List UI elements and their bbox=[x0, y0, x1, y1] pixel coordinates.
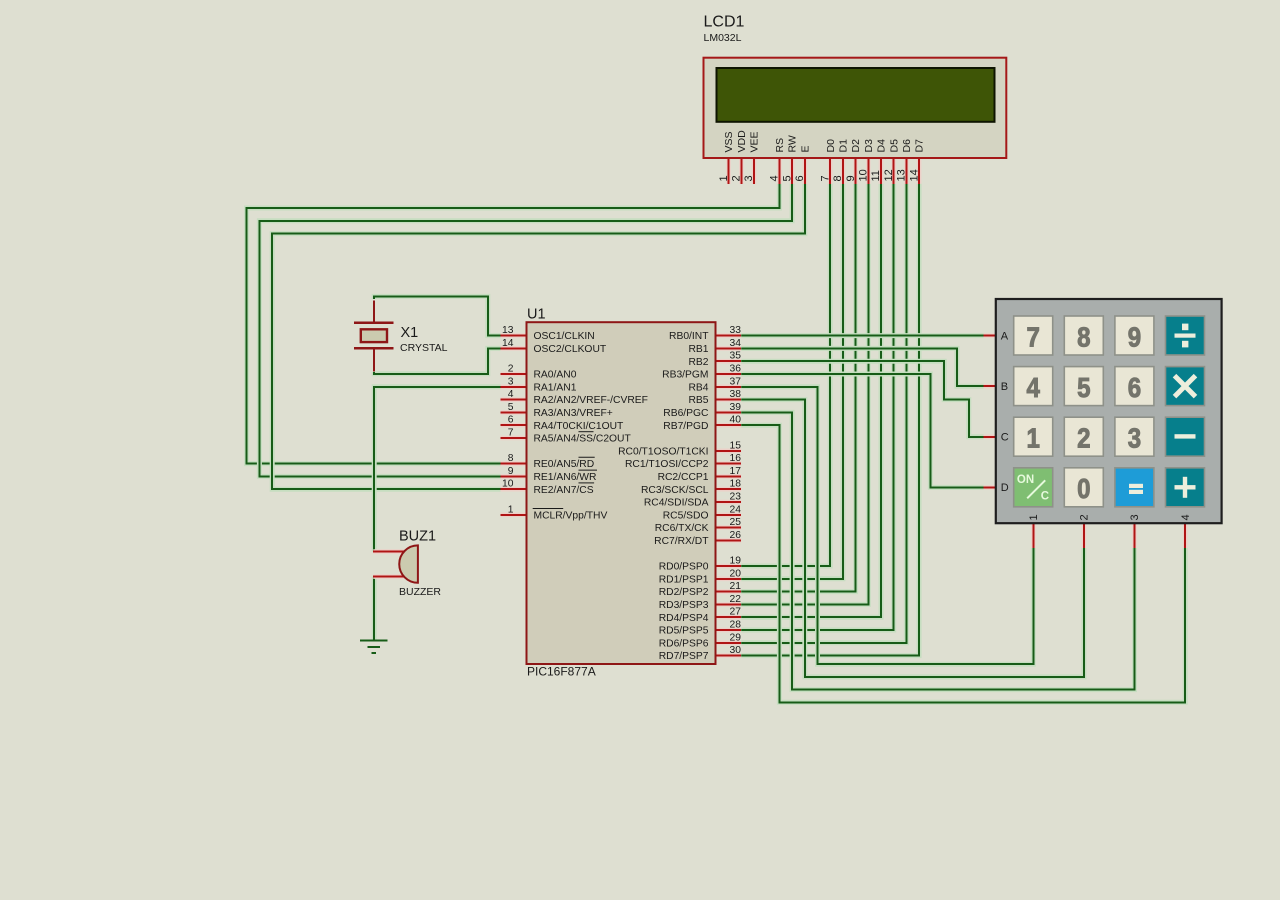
svg-text:BUZ1: BUZ1 bbox=[399, 528, 436, 544]
U1 pin 17 (RC2/CCP1) bbox=[716, 474, 742, 479]
crystal X1 body bbox=[361, 329, 387, 342]
svg-text:RE2/AN7/CS: RE2/AN7/CS bbox=[534, 485, 594, 496]
wire LCD D0 to U1 RD0 (net D0) bbox=[741, 184, 830, 566]
U1 pin 39 (RB6/PGC) bbox=[716, 410, 742, 415]
keypad key divide bbox=[1166, 316, 1205, 355]
svg-text:1: 1 bbox=[1028, 514, 1040, 520]
LCD1 pin 4 (RS) bbox=[777, 158, 782, 184]
svg-text:D0: D0 bbox=[825, 139, 837, 153]
wire LCD D3 to U1 RD3 (net D3) bbox=[741, 184, 868, 605]
svg-text:RC7/RX/DT: RC7/RX/DT bbox=[654, 536, 709, 547]
svg-text:16: 16 bbox=[730, 453, 742, 464]
U1 pin 4 (RA2/AN2/VREF-/CVREF) bbox=[501, 397, 527, 402]
LCD1 pin 11 (D4) bbox=[879, 158, 884, 184]
svg-text:15: 15 bbox=[730, 440, 742, 451]
U1 pin 25 (RC6/TX/CK) bbox=[716, 525, 742, 530]
keypad panel bbox=[996, 299, 1222, 523]
wire U1 RB6 to keypad column 3 bbox=[741, 412, 1134, 689]
keypad key 4 bbox=[1014, 367, 1053, 406]
LCD1 pin 1 (VSS) bbox=[726, 158, 731, 184]
svg-text:RD2/PSP2: RD2/PSP2 bbox=[659, 587, 709, 598]
svg-text:D2: D2 bbox=[850, 139, 862, 153]
wire X1 top to U1 OSC1 (net XT1) bbox=[374, 296, 500, 335]
overbar on SS of RA5 label bbox=[579, 431, 594, 433]
svg-text:D1: D1 bbox=[838, 139, 850, 153]
U1 pin 5 (RA3/AN3/VREF+) bbox=[501, 410, 527, 415]
svg-text:14: 14 bbox=[502, 338, 514, 349]
wire LCD D5 to U1 RD5 (net D5) bbox=[741, 184, 894, 630]
svg-text:RC6/TX/CK: RC6/TX/CK bbox=[655, 523, 709, 534]
svg-text:RC3/SCK/SCL: RC3/SCK/SCL bbox=[641, 485, 709, 496]
keypad key 1 bbox=[1014, 417, 1053, 456]
svg-text:RC0/T1OSO/T1CKI: RC0/T1OSO/T1CKI bbox=[618, 446, 708, 457]
svg-text:D: D bbox=[1001, 482, 1009, 494]
svg-text:RS: RS bbox=[774, 138, 786, 153]
svg-text:27: 27 bbox=[730, 607, 742, 618]
U1 pin 6 (RA4/T0CKI/C1OUT) bbox=[501, 423, 527, 428]
svg-text:4: 4 bbox=[1027, 372, 1041, 403]
svg-text:2: 2 bbox=[508, 364, 514, 375]
svg-text:3: 3 bbox=[1129, 514, 1141, 520]
svg-text:D4: D4 bbox=[876, 139, 888, 153]
U1 pin 24 (RC5/SDO) bbox=[716, 512, 742, 517]
X1 pin 1 stub bbox=[373, 301, 375, 323]
svg-text:RB2: RB2 bbox=[688, 357, 708, 368]
wire LCD D6 to U1 RD6 (net D6) bbox=[741, 184, 906, 643]
U1 pin 33 (RB0/INT) bbox=[716, 333, 742, 338]
svg-text:29: 29 bbox=[730, 632, 742, 643]
svg-text:B: B bbox=[1001, 381, 1008, 393]
svg-text:LM032L: LM032L bbox=[704, 32, 742, 44]
svg-text:7: 7 bbox=[819, 175, 831, 181]
wire U1 RB5 to keypad column 2 bbox=[741, 400, 1084, 677]
svg-text:RB6/PGC: RB6/PGC bbox=[663, 408, 709, 419]
svg-text:34: 34 bbox=[730, 338, 742, 349]
U1 pin 37 (RB4) bbox=[716, 384, 742, 389]
U1 pin 20 (RD1/PSP1) bbox=[716, 576, 742, 581]
keypad key 5 bbox=[1064, 367, 1103, 406]
svg-text:RC1/T1OSI/CCP2: RC1/T1OSI/CCP2 bbox=[625, 459, 709, 470]
keypad pin row A bbox=[984, 333, 996, 338]
svg-text:BUZZER: BUZZER bbox=[399, 586, 441, 598]
svg-text:RA0/AN0: RA0/AN0 bbox=[534, 370, 577, 381]
svg-text:C: C bbox=[1041, 490, 1049, 502]
U1 pin 15 (RC0/T1OSO/T1CKI) bbox=[716, 448, 742, 453]
svg-text:10: 10 bbox=[502, 479, 514, 490]
U1 pin 16 (RC1/T1OSI/CCP2) bbox=[716, 461, 742, 466]
svg-text:RD5/PSP5: RD5/PSP5 bbox=[659, 626, 709, 637]
svg-text:39: 39 bbox=[730, 402, 742, 413]
wire U1 RB4 to keypad column 1 bbox=[741, 387, 1033, 664]
svg-text:LCD1: LCD1 bbox=[704, 13, 745, 30]
LCD display LCD1 LM032L bbox=[704, 58, 1007, 158]
svg-text:RC5/SDO: RC5/SDO bbox=[663, 510, 709, 521]
U1 pin 7 (RA5/AN4/SS/C2OUT) bbox=[501, 436, 527, 441]
svg-text:35: 35 bbox=[730, 351, 742, 362]
wire U1 RB2 to keypad row C bbox=[741, 361, 983, 437]
keypad pin column 1 bbox=[1031, 523, 1036, 548]
svg-text:RB0/INT: RB0/INT bbox=[669, 331, 709, 342]
overbar on RD of RE0 label bbox=[579, 456, 595, 458]
svg-text:5: 5 bbox=[781, 175, 793, 181]
U1 pin 38 (RB5) bbox=[716, 397, 742, 402]
keypad pin column 2 bbox=[1082, 523, 1087, 548]
U1 pin 19 (RD0/PSP0) bbox=[716, 564, 742, 569]
svg-text:3: 3 bbox=[508, 376, 514, 387]
U1 pin 27 (RD4/PSP4) bbox=[716, 615, 742, 620]
svg-text:19: 19 bbox=[730, 556, 742, 567]
svg-text:30: 30 bbox=[730, 645, 742, 656]
svg-text:12: 12 bbox=[883, 169, 895, 181]
svg-text:37: 37 bbox=[730, 376, 742, 387]
svg-text:24: 24 bbox=[730, 504, 742, 515]
svg-text:20: 20 bbox=[730, 568, 742, 579]
svg-text:RD0/PSP0: RD0/PSP0 bbox=[659, 562, 709, 573]
keypad key 8 bbox=[1064, 316, 1103, 355]
U1 pin 23 (RC4/SDI/SDA) bbox=[716, 500, 742, 505]
LCD1 screen area bbox=[717, 68, 995, 122]
svg-text:D5: D5 bbox=[888, 139, 900, 153]
svg-text:PIC16F877A: PIC16F877A bbox=[527, 665, 596, 679]
svg-text:2: 2 bbox=[1077, 423, 1090, 454]
svg-text:RD7/PSP7: RD7/PSP7 bbox=[659, 651, 709, 662]
keypad key 2 bbox=[1064, 417, 1103, 456]
svg-text:13: 13 bbox=[896, 169, 908, 181]
svg-text:28: 28 bbox=[730, 620, 742, 631]
U1 pin 35 (RB2) bbox=[716, 359, 742, 364]
crystal X1 plates bbox=[354, 323, 394, 348]
svg-text:RA1/AN1: RA1/AN1 bbox=[534, 382, 577, 393]
svg-text:2: 2 bbox=[1079, 514, 1091, 520]
svg-text:9: 9 bbox=[845, 175, 857, 181]
svg-text:E: E bbox=[799, 145, 811, 152]
keypad key 0 bbox=[1064, 468, 1103, 507]
svg-text:0: 0 bbox=[1077, 473, 1090, 504]
svg-text:D7: D7 bbox=[914, 139, 926, 153]
svg-text:5: 5 bbox=[508, 402, 514, 413]
svg-text:RE1/AN6/WR: RE1/AN6/WR bbox=[534, 472, 597, 483]
svg-text:RD4/PSP4: RD4/PSP4 bbox=[659, 613, 709, 624]
svg-text:RW: RW bbox=[787, 135, 799, 152]
svg-text:36: 36 bbox=[730, 364, 742, 375]
keypad key 3 bbox=[1115, 417, 1154, 456]
wire LCD D2 to U1 RD2 (net D2) bbox=[741, 184, 855, 592]
svg-text:14: 14 bbox=[908, 169, 920, 181]
svg-text:RB3/PGM: RB3/PGM bbox=[662, 370, 708, 381]
LCD1 pin 8 (D1) bbox=[841, 158, 846, 184]
X1 pin 2 stub bbox=[373, 348, 375, 371]
LCD1 pin 10 (D3) bbox=[866, 158, 871, 184]
U1 pin 2 (RA0/AN0) bbox=[501, 372, 527, 377]
svg-text:MCLR/Vpp/THV: MCLR/Vpp/THV bbox=[534, 510, 608, 521]
svg-text:13: 13 bbox=[502, 325, 514, 336]
U1 pin 22 (RD3/PSP3) bbox=[716, 602, 742, 607]
keypad pin row B bbox=[984, 384, 996, 389]
svg-text:9: 9 bbox=[1128, 321, 1141, 352]
wire LCD D4 to U1 RD4 (net D4) bbox=[741, 184, 881, 617]
svg-text:RB1: RB1 bbox=[688, 344, 708, 355]
svg-text:18: 18 bbox=[730, 479, 742, 490]
svg-text:RB7/PGD: RB7/PGD bbox=[663, 421, 708, 432]
LCD1 pin 6 (E) bbox=[802, 158, 807, 184]
svg-text:RD6/PSP6: RD6/PSP6 bbox=[659, 638, 709, 649]
svg-text:6: 6 bbox=[508, 415, 514, 426]
svg-text:3: 3 bbox=[1128, 423, 1141, 454]
svg-text:40: 40 bbox=[730, 415, 742, 426]
svg-text:U1: U1 bbox=[527, 306, 546, 322]
overbar on WR of RE1 label bbox=[579, 469, 598, 471]
keypad pin row D bbox=[984, 485, 996, 490]
svg-text:VEE: VEE bbox=[749, 131, 761, 152]
svg-text:RA4/T0CKI/C1OUT: RA4/T0CKI/C1OUT bbox=[534, 421, 625, 432]
svg-text:22: 22 bbox=[730, 594, 742, 605]
wire U1 RB3 to keypad row D bbox=[741, 374, 983, 487]
svg-text:VSS: VSS bbox=[723, 131, 735, 152]
svg-text:VDD: VDD bbox=[736, 130, 748, 153]
wire U1 RB1 to keypad row B bbox=[741, 348, 983, 386]
LCD1 pin 7 (D0) bbox=[828, 158, 833, 184]
wire U1 RB0 to keypad row A bbox=[741, 333, 983, 338]
LCD1 pin 5 (RW) bbox=[790, 158, 795, 184]
overbar on CS of RE2 label bbox=[579, 482, 595, 484]
U1 pin 30 (RD7/PSP7) bbox=[716, 653, 742, 658]
U1 pin 13 (OSC1/CLKIN) bbox=[501, 333, 527, 338]
U1 pin 40 (RB7/PGD) bbox=[716, 423, 742, 428]
svg-text:7: 7 bbox=[508, 428, 514, 439]
svg-text:6: 6 bbox=[794, 175, 806, 181]
svg-text:D6: D6 bbox=[901, 139, 913, 153]
keypad key = bbox=[1115, 468, 1154, 507]
U1 pin 9 (RE1/AN6/WR) bbox=[501, 474, 527, 479]
svg-text:38: 38 bbox=[730, 389, 742, 400]
svg-text:A: A bbox=[1001, 330, 1009, 342]
keypad pin column 4 bbox=[1183, 523, 1188, 548]
svg-text:7: 7 bbox=[1027, 321, 1040, 352]
svg-text:21: 21 bbox=[730, 581, 742, 592]
svg-text:8: 8 bbox=[832, 175, 844, 181]
U1 pin 29 (RD6/PSP6) bbox=[716, 640, 742, 645]
svg-text:ON: ON bbox=[1017, 474, 1034, 486]
svg-text:4: 4 bbox=[508, 389, 514, 400]
U1 pin 26 (RC7/RX/DT) bbox=[716, 538, 742, 543]
wire LCD E to U1 RE2 (net E) bbox=[272, 184, 805, 489]
LCD1 pin 2 (VDD) bbox=[739, 158, 744, 184]
BUZ1 pin 1 (top) bbox=[373, 549, 404, 554]
svg-text:10: 10 bbox=[858, 169, 870, 181]
wire LCD RS to U1 RE0 (net RS) bbox=[247, 184, 780, 464]
op-amp-style body: microcontroller U1 PIC16F877A bbox=[527, 322, 716, 664]
svg-text:8: 8 bbox=[1077, 321, 1090, 352]
wire BUZ1 to ground bbox=[372, 577, 377, 640]
svg-text:X1: X1 bbox=[401, 325, 419, 341]
U1 pin 1 (MCLR/Vpp/THV) bbox=[501, 512, 527, 517]
svg-text:OSC2/CLKOUT: OSC2/CLKOUT bbox=[534, 344, 607, 355]
U1 pin 14 (OSC2/CLKOUT) bbox=[501, 346, 527, 351]
U1 pin 8 (RE0/AN5/RD) bbox=[501, 461, 527, 466]
wire LCD D1 to U1 RD1 (net D1) bbox=[741, 184, 843, 579]
BUZ1 pin 2 (bottom) bbox=[373, 574, 404, 579]
U1 pin 10 (RE2/AN7/CS) bbox=[501, 487, 527, 492]
svg-text:RD1/PSP1: RD1/PSP1 bbox=[659, 574, 709, 585]
svg-text:RB4: RB4 bbox=[688, 382, 708, 393]
U1 pin 21 (RD2/PSP2) bbox=[716, 589, 742, 594]
svg-text:26: 26 bbox=[730, 530, 742, 541]
svg-text:6: 6 bbox=[1128, 372, 1141, 403]
keypad pin column 3 bbox=[1132, 523, 1137, 548]
svg-text:RC2/CCP1: RC2/CCP1 bbox=[658, 472, 709, 483]
wire LCD RW to U1 RE1 (net RW) bbox=[259, 184, 792, 477]
keypad key minus bbox=[1166, 417, 1205, 456]
U1 pin 18 (RC3/SCK/SCL) bbox=[716, 487, 742, 492]
keypad key 6 bbox=[1115, 367, 1154, 406]
svg-text:23: 23 bbox=[730, 492, 742, 503]
svg-text:RE0/AN5/RD: RE0/AN5/RD bbox=[534, 459, 595, 470]
wire LCD D7 to U1 RD7 (net D7) bbox=[741, 184, 919, 656]
wire U1 RA1 to BUZ1 (net BUZ) bbox=[374, 387, 500, 552]
buzzer BUZ1 body bbox=[399, 545, 418, 582]
overbar on MCLR label bbox=[533, 508, 564, 510]
svg-text:RA2/AN2/VREF-/CVREF: RA2/AN2/VREF-/CVREF bbox=[534, 395, 648, 406]
svg-text:1: 1 bbox=[1027, 423, 1040, 454]
svg-text:3: 3 bbox=[743, 175, 755, 181]
svg-text:2: 2 bbox=[731, 175, 743, 181]
wire U1 RB7 to keypad column 4 bbox=[741, 425, 1185, 702]
LCD1 pin 14 (D7) bbox=[917, 158, 922, 184]
svg-text:1: 1 bbox=[508, 504, 514, 515]
U1 pin 3 (RA1/AN1) bbox=[501, 384, 527, 389]
svg-text:OSC1/CLKIN: OSC1/CLKIN bbox=[534, 331, 595, 342]
svg-text:25: 25 bbox=[730, 517, 742, 528]
U1 pin 28 (RD5/PSP5) bbox=[716, 628, 742, 633]
svg-text:11: 11 bbox=[870, 170, 882, 181]
svg-text:RD3/PSP3: RD3/PSP3 bbox=[659, 600, 709, 611]
svg-text:D3: D3 bbox=[863, 139, 875, 153]
svg-text:9: 9 bbox=[508, 466, 514, 477]
svg-text:1: 1 bbox=[718, 175, 730, 181]
LCD1 pin 13 (D6) bbox=[904, 158, 909, 184]
svg-text:4: 4 bbox=[769, 175, 781, 181]
svg-text:C: C bbox=[1001, 432, 1009, 444]
LCD1 pin 9 (D2) bbox=[853, 158, 858, 184]
wire X1 bottom to U1 OSC2 (net XT2) bbox=[374, 348, 500, 373]
keypad key ON/C bbox=[1014, 468, 1053, 507]
svg-text:RC4/SDI/SDA: RC4/SDI/SDA bbox=[644, 498, 709, 509]
keypad key 9 bbox=[1115, 316, 1154, 355]
svg-text:33: 33 bbox=[730, 325, 742, 336]
svg-text:RA5/AN4/SS/C2OUT: RA5/AN4/SS/C2OUT bbox=[534, 434, 632, 445]
keypad key plus bbox=[1166, 468, 1205, 507]
svg-text:RB5: RB5 bbox=[688, 395, 708, 406]
ground symbol below BUZ1 bbox=[360, 641, 387, 653]
keypad key 7 bbox=[1014, 316, 1053, 355]
svg-text:8: 8 bbox=[508, 453, 514, 464]
svg-text:4: 4 bbox=[1180, 514, 1192, 520]
svg-text:5: 5 bbox=[1077, 372, 1090, 403]
svg-text:CRYSTAL: CRYSTAL bbox=[400, 342, 448, 354]
keypad pin row C bbox=[984, 434, 996, 439]
svg-text:17: 17 bbox=[730, 466, 742, 477]
U1 pin 34 (RB1) bbox=[716, 346, 742, 351]
keypad key multiply bbox=[1166, 367, 1205, 406]
LCD1 pin 12 (D5) bbox=[891, 158, 896, 184]
svg-text:RA3/AN3/VREF+: RA3/AN3/VREF+ bbox=[534, 408, 613, 419]
LCD1 pin 3 (VEE) bbox=[752, 158, 757, 184]
U1 pin 36 (RB3/PGM) bbox=[716, 372, 742, 377]
